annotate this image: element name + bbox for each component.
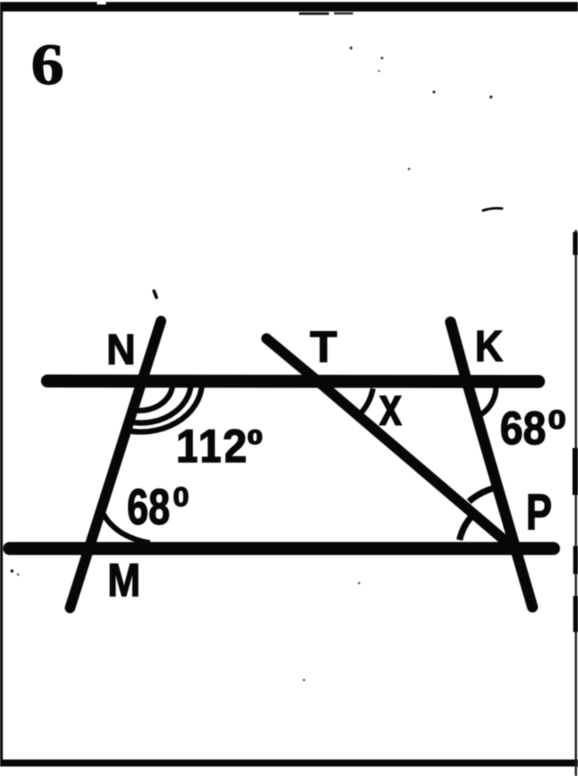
svg-text:x: x (379, 375, 402, 437)
svg-text:0: 0 (548, 405, 566, 435)
svg-text:112: 112 (176, 420, 247, 472)
svg-text:T: T (310, 323, 337, 372)
svg-text:M: M (108, 554, 141, 606)
svg-text:0: 0 (173, 482, 189, 512)
svg-text:K: K (475, 322, 503, 371)
svg-text:6: 6 (31, 32, 64, 97)
svg-text:P: P (526, 484, 552, 540)
svg-text:0: 0 (248, 427, 263, 449)
svg-text:68: 68 (127, 479, 170, 535)
svg-text:68: 68 (500, 402, 546, 454)
svg-text:N: N (107, 326, 136, 374)
